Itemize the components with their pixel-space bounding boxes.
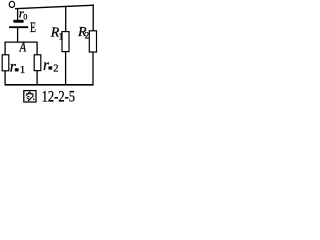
battery E positive plate	[9, 26, 28, 28]
resistor r*2	[34, 55, 41, 71]
wire left shunt branch upper	[4, 42, 6, 55]
wire battery drop	[17, 9, 19, 21]
svg-text:A: A	[19, 41, 27, 56]
svg-text:1: 1	[20, 64, 26, 76]
wire right shunt branch upper	[36, 42, 38, 55]
battery E negative plate	[13, 20, 23, 23]
wire right shunt branch lower	[36, 71, 38, 86]
svg-text:E: E	[30, 20, 36, 36]
svg-text:2: 2	[85, 31, 90, 41]
wire junction bar	[5, 41, 38, 43]
wire bottom horizontal	[5, 84, 94, 86]
caption glyph tu (figure)	[24, 91, 36, 102]
svg-text:1: 1	[59, 31, 64, 41]
resistor r*1	[2, 55, 9, 71]
terminal circle	[9, 1, 14, 7]
resistor R1	[62, 32, 69, 52]
svg-text:12-2-5: 12-2-5	[42, 88, 76, 104]
svg-text:0: 0	[23, 13, 27, 22]
wire R1 branch lower	[65, 52, 67, 86]
svg-text:2: 2	[53, 63, 58, 74]
resistor R2	[89, 31, 96, 52]
wire R2 branch lower	[92, 52, 94, 85]
wire top horizontal	[15, 5, 94, 9]
wire left shunt branch lower	[4, 71, 6, 85]
svg-text:r: r	[10, 58, 17, 75]
wire battery to junction	[17, 28, 19, 42]
svg-text:r: r	[43, 57, 50, 74]
wire R2 branch upper	[92, 5, 94, 31]
wire R1 branch upper	[65, 6, 67, 32]
